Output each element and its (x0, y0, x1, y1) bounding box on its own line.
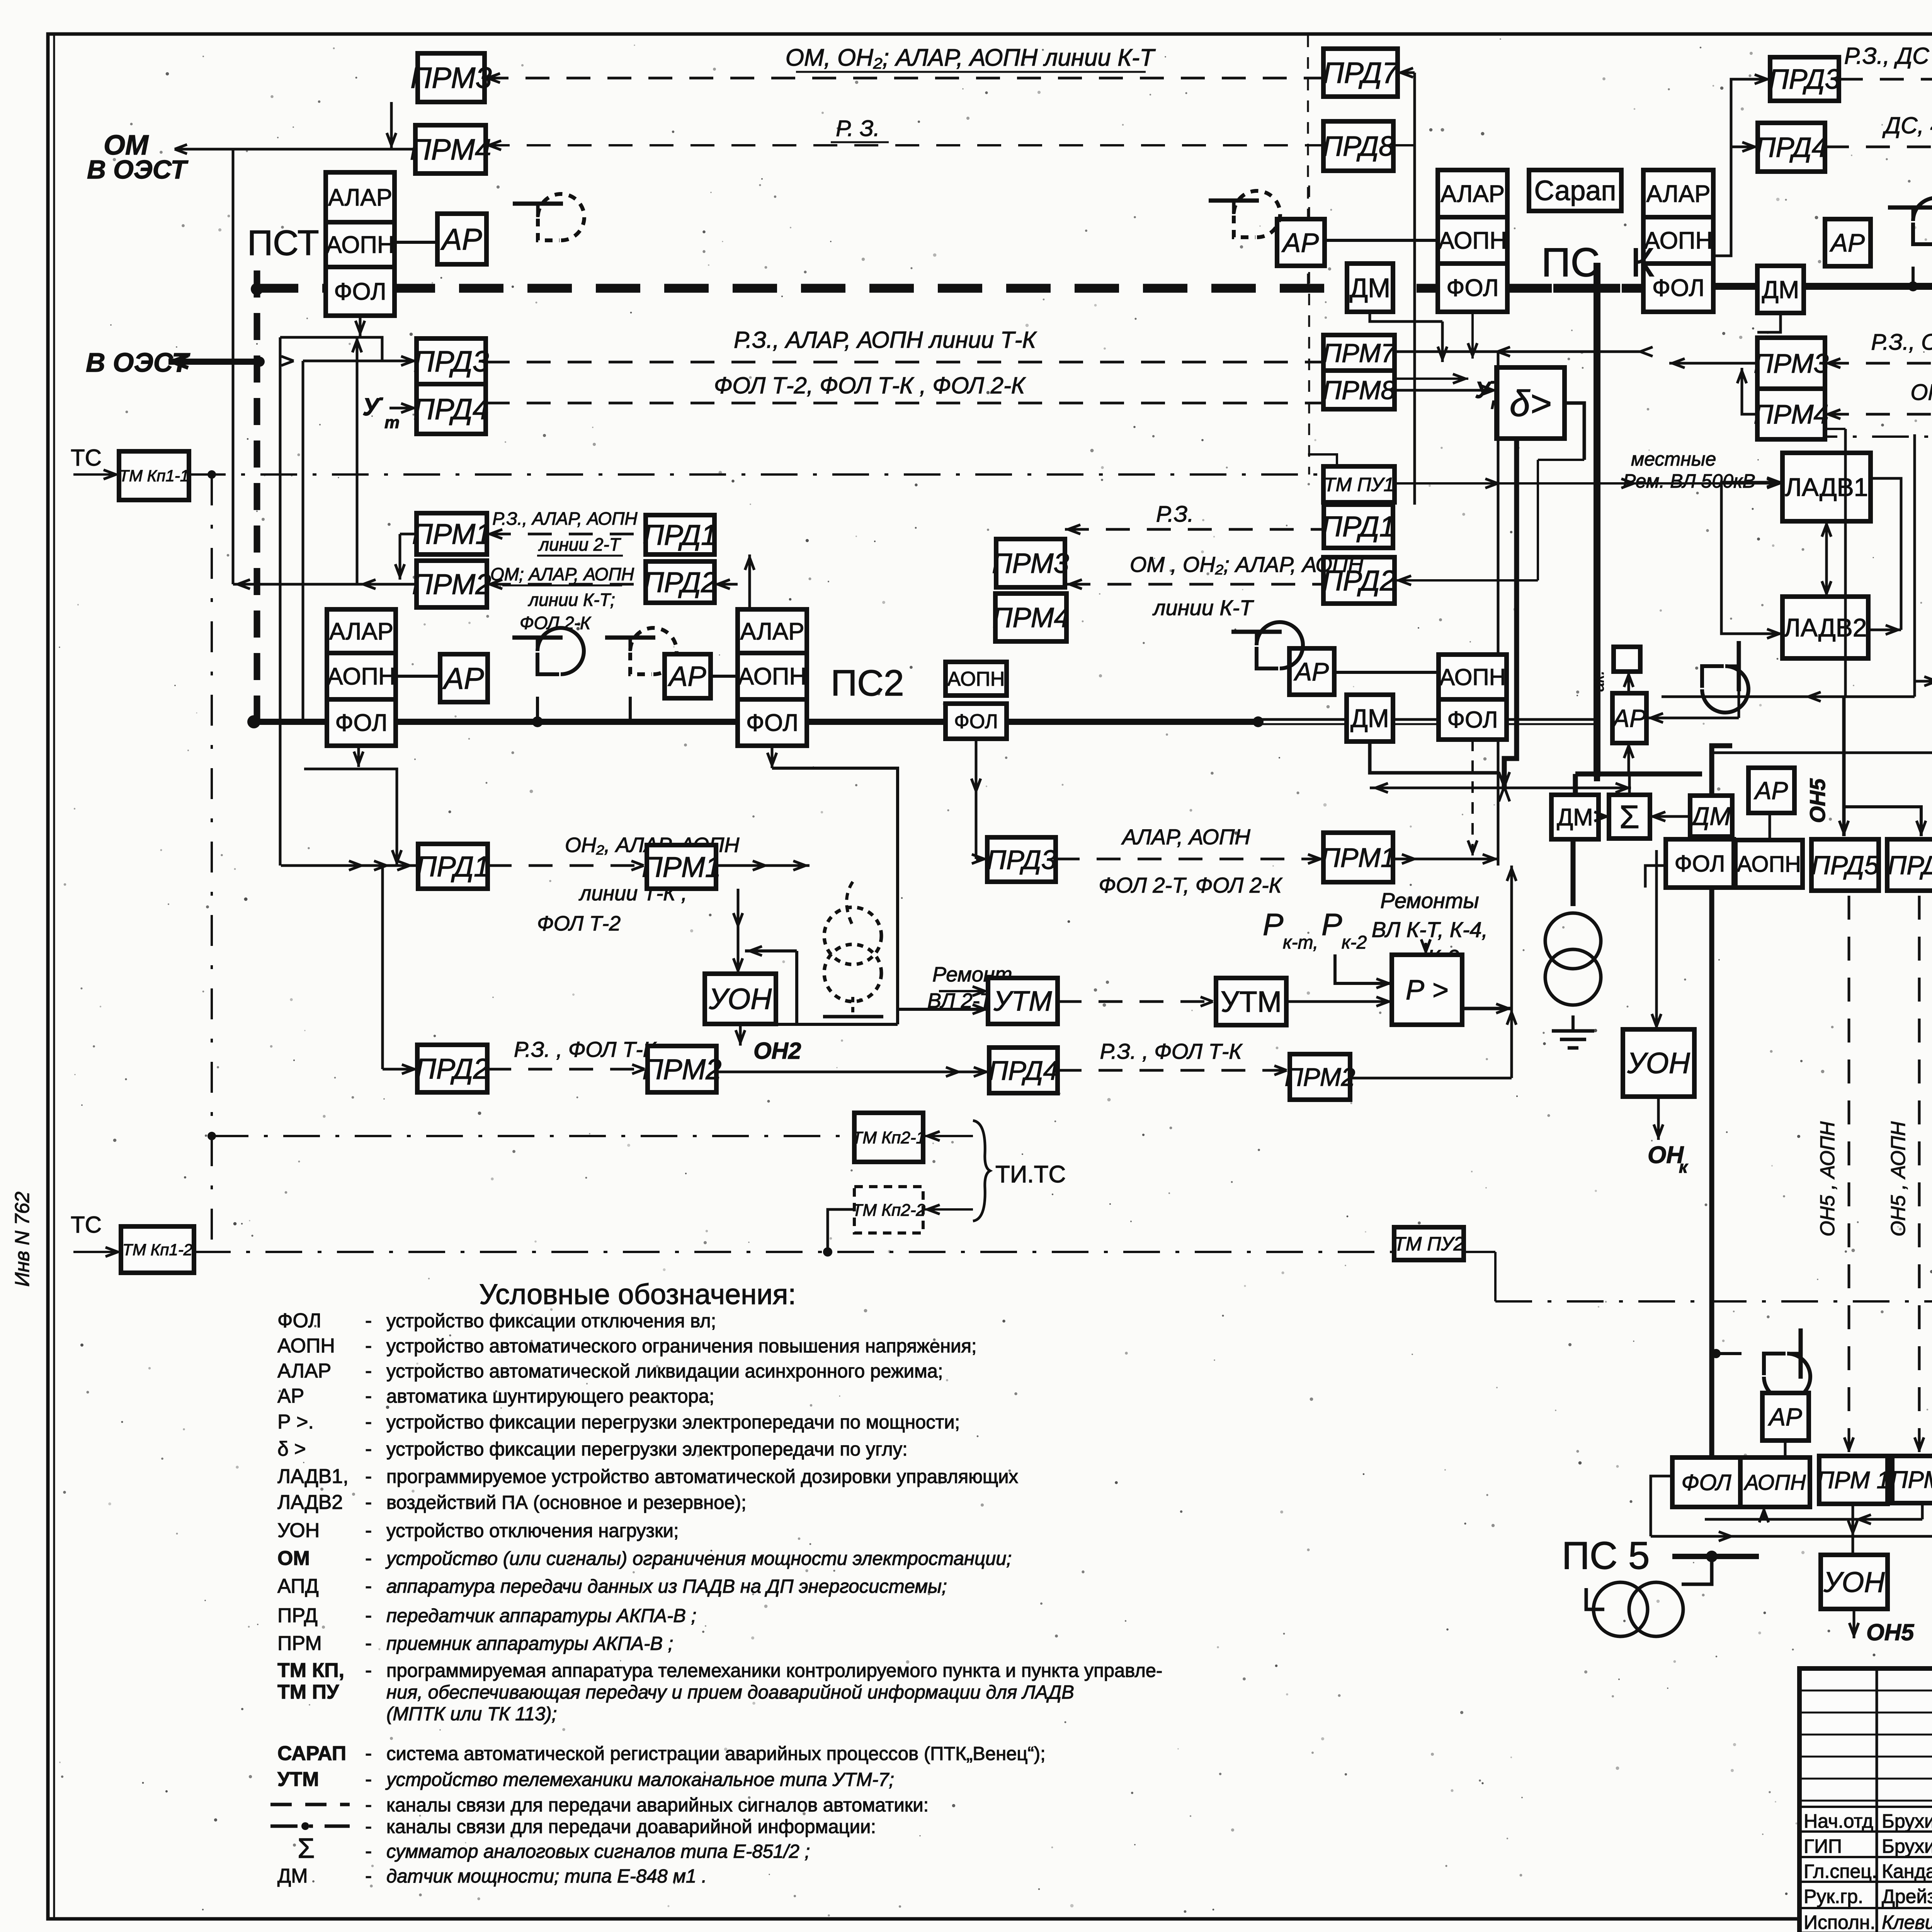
wire: AR bottom arrow up (1629, 746, 1633, 758)
svg-text:-: - (365, 1659, 372, 1682)
svg-text:ОН5: ОН5 (1805, 778, 1830, 823)
receiver PRM1 (PS5) (1819, 1456, 1888, 1504)
svg-text:ТМ КП,: ТМ КП, (277, 1659, 344, 1682)
wire: AR mid to AOPN (1334, 671, 1439, 674)
device FOL (PS5) (1672, 1458, 1740, 1507)
wire: PRM4r hook to PRM3 line (1742, 368, 1757, 414)
svg-text:Рук.гр.: Рук.гр. (1804, 1886, 1863, 1907)
svg-text:устройство автоматической ли: устройство автоматической ликвидации аси… (386, 1361, 943, 1382)
svg-text:-: - (365, 1360, 372, 1382)
wire: collector into PRD3/PRD4 (280, 337, 382, 361)
svg-text:линии К-Т: линии К-Т (1152, 595, 1254, 620)
svg-text:Σ: Σ (1619, 799, 1639, 835)
dosing device LADV2 (1782, 597, 1868, 658)
svg-text:АОПН: АОПН (1439, 664, 1506, 690)
svg-text:ТМ Кп1-1: ТМ Кп1-1 (119, 467, 189, 485)
svg-text:устройство автоматического о: устройство автоматического ограничения п… (386, 1336, 977, 1357)
svg-text:ПРД: ПРД (277, 1604, 318, 1627)
svg-text:устройство (или сигналы) ог: устройство (или сигналы) ограничения мощ… (385, 1548, 1012, 1569)
wire: transformer hook (1682, 1556, 1712, 1584)
svg-text:Кандауров: Кандауров (1882, 1861, 1932, 1882)
transmitter PRD5 (1811, 839, 1879, 891)
svg-text:Гл.спец.: Гл.спец. (1804, 1861, 1877, 1882)
wire: dashed PRD4mid to PRM2mid R.Z. FOL T-K (1058, 1069, 1290, 1072)
svg-text:ОМ , АЛАР, АОПН , ФЛ 4-к: ОМ , АЛАР, АОПН , ФЛ 4-к (1910, 380, 1932, 405)
wire: DM to Sigma arrows (1599, 815, 1609, 818)
wire: AOPN to AR (395, 241, 437, 244)
svg-text:Р.З., АЛАР, АОПН: Р.З., АЛАР, АОПН (492, 509, 638, 529)
svg-text:каналы связи для передачи: каналы связи для передачи доаварийной ин… (386, 1816, 876, 1837)
svg-text:ПРД2: ПРД2 (643, 566, 717, 598)
wire: PRM7 output right (1395, 350, 1643, 353)
svg-text:каналы связи для передачи: каналы связи для передачи аварийных сигн… (386, 1795, 929, 1816)
wire: vertical from PRD7 right down (1413, 73, 1416, 505)
svg-text:Р.З., ОМ, АЛАР, АОПН , фол: Р.З., ОМ, АЛАР, АОПН , фол 4-к (1871, 330, 1932, 355)
receiver PRM8 (1323, 371, 1395, 409)
svg-text:ПС 5: ПС 5 (1562, 1534, 1650, 1577)
shunt reactor 1 (PST bus) (512, 628, 584, 674)
svg-text:УОН: УОН (1823, 1566, 1885, 1598)
svg-text:ПРД4: ПРД4 (988, 1056, 1058, 1086)
power overload relay P> (1392, 955, 1462, 1025)
reactor automation AR (right mid) (1825, 219, 1871, 266)
wire: FOL PS2-right down to PRD3 mid (975, 739, 978, 859)
svg-text:ПРМ 2: ПРМ 2 (1891, 1467, 1932, 1493)
transmitter PRD2 (line K-T) (646, 561, 714, 603)
svg-text:-: - (365, 1794, 372, 1816)
svg-text:ФОЛ: ФОЛ (1447, 707, 1498, 733)
receiver PRM4 (right) (1757, 389, 1825, 439)
wire: v OEST thick arrow (168, 359, 260, 365)
svg-text:АОПН: АОПН (1737, 852, 1801, 877)
wire: LADV1 right out (1871, 478, 1901, 572)
wire: big rect around LADV outputs (1844, 429, 1847, 696)
svg-text:датчик мощности; типа Е-848: датчик мощности; типа Е-848 м1 . (386, 1866, 707, 1887)
wire: FOL stack down arrow (359, 316, 362, 336)
wire: PRM8 output to delta box (1395, 389, 1497, 392)
device AOPN (PS2 right) (946, 662, 1007, 696)
svg-text:Сарап: Сарап (1534, 175, 1616, 206)
shunt reactor (mid) (1231, 622, 1303, 668)
svg-text:ОН5: ОН5 (1866, 1619, 1915, 1645)
transmitter PRD2 (row3) (417, 1045, 487, 1092)
svg-text:ПС2: ПС2 (831, 663, 904, 704)
wire: dash-dot vertical x548 (211, 474, 213, 1252)
svg-text:АОПН: АОПН (1644, 228, 1713, 254)
wire: PS5 bus stub (1672, 1554, 1759, 1559)
svg-text:автоматика шунтирующего реак: автоматика шунтирующего реактора; (386, 1386, 714, 1407)
svg-text:-: - (365, 1575, 372, 1597)
wire: AOPN-AR link (396, 675, 440, 678)
wire: P> output right (1462, 1007, 1512, 1010)
ground (2-T) (851, 997, 854, 1015)
svg-text:ПРД3: ПРД3 (413, 345, 489, 378)
svg-text:Р. З.: Р. З. (836, 116, 880, 141)
wire: dashed OM ALAR AOPN fil4-k (1825, 413, 1932, 416)
svg-text:ПРМ1: ПРМ1 (642, 851, 721, 883)
svg-text:-: - (365, 1768, 372, 1791)
receiver PRM2 (row3) (648, 1046, 716, 1092)
svg-text:-: - (365, 1385, 372, 1407)
receiver PRM3 (PST) (418, 53, 485, 102)
svg-text:приемник аппаратуры АКПА-В: приемник аппаратуры АКПА-В ; (386, 1633, 673, 1654)
svg-text:УТМ: УТМ (1221, 986, 1282, 1019)
svg-text:т: т (384, 413, 400, 432)
wire: dashed PRD1-PRM1 row2 (488, 864, 647, 867)
bus: PS K thick vertical (1594, 263, 1600, 777)
svg-text:-: - (365, 1604, 372, 1627)
load shedding UON (PST) (705, 974, 776, 1024)
svg-text:ФОЛ: ФОЛ (1446, 275, 1498, 301)
svg-text:(МПТК или ТК 113);: (МПТК или ТК 113); (386, 1704, 557, 1725)
svg-text:САРАП: САРАП (277, 1742, 346, 1765)
svg-text:ФОЛ 2-Т, ФОЛ 2-К: ФОЛ 2-Т, ФОЛ 2-К (1099, 873, 1282, 897)
transformer (2-T) (824, 907, 881, 964)
wire: TM Kp2-2 right (923, 1208, 973, 1211)
wire: UON K input (1655, 947, 1658, 1029)
device AOPN (collector row) (1735, 840, 1803, 888)
svg-text:ПС: ПС (1541, 240, 1600, 285)
wire: arrows into UTM1 (939, 990, 988, 992)
wire: AR up arrow to ak box (1628, 672, 1630, 693)
wire: arrow into AR right side (1646, 717, 1739, 719)
svg-text:ПРМ: ПРМ (277, 1632, 322, 1655)
svg-text:АЛАР, АОПН: АЛАР, АОПН (1121, 825, 1250, 849)
wire: collector line y1948 to APD2 (1712, 752, 1932, 754)
svg-text:ПРД3: ПРД3 (986, 845, 1056, 875)
svg-text:устройство фиксации перегруз: устройство фиксации перегрузки электропе… (386, 1439, 908, 1460)
svg-text:ТС: ТС (71, 445, 102, 471)
reactor automation AR (PS5) (1762, 1393, 1809, 1440)
svg-text:ПРМ1: ПРМ1 (1321, 843, 1396, 873)
wire: vertical from PRM3 to OM line (390, 102, 393, 149)
svg-text:Нач.отд: Нач.отд (1804, 1810, 1873, 1832)
wire: dashed R.Z. to PRM3 midleft (1065, 528, 1324, 531)
svg-text:ТМ Кп2-1: ТМ Кп2-1 (852, 1128, 925, 1147)
wire: TS arrow into TM Kp1-1 (73, 473, 119, 476)
svg-text:ПРД4: ПРД4 (413, 393, 489, 426)
svg-text:ПРМ 1: ПРМ 1 (1817, 1467, 1890, 1494)
wire: TS dash-dot line y1228 (189, 473, 1323, 476)
wire: FOL PS2 down arrow (771, 746, 774, 768)
svg-text:-: - (365, 1465, 372, 1488)
wire: ON5 branch to PRD6 (1844, 807, 1921, 836)
wire: dashed OM OH2 ALAR AOPN linii K-T (485, 77, 1323, 80)
svg-text:ПРД2: ПРД2 (415, 1053, 489, 1085)
svg-text:Р: Р (1321, 907, 1342, 942)
svg-text:ДМ: ДМ (1350, 704, 1389, 733)
wire: PS5 collector lines (1705, 1518, 1922, 1521)
wire: PRM1 down to PRM2 line (400, 533, 417, 536)
shunt reactor (K right) (1702, 641, 1748, 713)
svg-text:передатчик аппаратуры АКПА-В: передатчик аппаратуры АКПА-В ; (386, 1605, 696, 1626)
wire: DM bottom hook (1370, 312, 1442, 321)
svg-text:устройство фиксации отключен: устройство фиксации отключения вл; (386, 1311, 716, 1332)
svg-text:к-2: к-2 (1342, 932, 1367, 953)
wire: DM sum-left down to transformer (1571, 839, 1576, 906)
wire: AOPN PSK-left down arrow (1471, 312, 1474, 359)
device stack ALAR/AOPN/FOL (PS K right) (1643, 170, 1713, 312)
svg-text:АР: АР (1611, 704, 1646, 732)
svg-text:ПРМ8: ПРМ8 (1323, 376, 1396, 405)
svg-text:ГИП: ГИП (1804, 1835, 1842, 1857)
svg-text:Клевцова: Клевцова (1882, 1912, 1932, 1932)
wire: remonty arrow down into P> (1425, 943, 1427, 955)
transformer (PS5) (1594, 1582, 1648, 1636)
device stack ALAR/AOPN/FOL (PST lower) (327, 609, 396, 746)
telemetry TM Kp1-2 (121, 1226, 194, 1273)
shunt reactor 2 (PST bus) (605, 628, 677, 674)
svg-text:ПРМ7: ПРМ7 (1323, 338, 1396, 368)
wire: dashed PRD2-PRM2 row3 R.Z. FOL T-K (487, 1068, 648, 1071)
svg-text:АОПН: АОПН (947, 668, 1005, 690)
wire: into PRD4 mid from left (716, 1071, 989, 1073)
wire: PRM1 down to UON (737, 889, 740, 974)
svg-text:Брухис: Брухис (1882, 1810, 1932, 1832)
load shedding UON (K) (1623, 1029, 1694, 1097)
wire: FOL(PST lower) down collector (357, 746, 360, 767)
wire: y1803 collector line from LADV (1662, 696, 1915, 698)
device AOPN (PS5) (1740, 1458, 1810, 1507)
svg-text:Р.З., АЛАР, АОПН линии Т-К: Р.З., АЛАР, АОПН линии Т-К (734, 327, 1037, 353)
telecontrol TM PU2 (1394, 1227, 1464, 1260)
wire: dashed DS 4st line to PRM2 right (1825, 146, 1932, 148)
device FOL (collector row) (1666, 839, 1734, 888)
wire: Ut arrow into PRD4 (389, 407, 417, 410)
wire: vertical into PRD2 row3 (381, 866, 384, 1069)
svg-text:программируемая аппаратура т: программируемая аппаратура телемеханики … (386, 1660, 1162, 1681)
svg-text:ЛАДВ2: ЛАДВ2 (277, 1491, 343, 1514)
bus: thin double line y1862 to PSK (1258, 718, 1599, 721)
svg-text:УОН: УОН (1627, 1047, 1690, 1080)
wire: dashed PRD1 to PRM1 (487, 533, 646, 536)
svg-text:воздействий ПА (основное и: воздействий ПА (основное и резервное); (386, 1492, 747, 1513)
shunt reactor (PST) (513, 194, 584, 240)
svg-text:к: к (1679, 1158, 1689, 1177)
receiver PRM2 (mid) (1290, 1054, 1350, 1100)
svg-text:аппаратура передачи данных: аппаратура передачи данных из ПАДВ на ДП… (386, 1576, 947, 1597)
svg-text:ОМ: ОМ (277, 1547, 310, 1570)
svg-text:ОМ , ОН₂; АЛАР, АОПН: ОМ , ОН₂; АЛАР, АОПН (1130, 552, 1364, 577)
wire: TM Kp2-1 left dash-dot line (212, 1135, 854, 1137)
svg-text:-: - (365, 1491, 372, 1514)
svg-text:-: - (365, 1438, 372, 1460)
wire: ON5 vertical into PRD5 (1842, 697, 1846, 836)
power sensor DM (mid) (1347, 695, 1393, 742)
wire: PRD2 mid right link (1395, 579, 1538, 582)
svg-text:ОМ, ОН₂; АЛАР, АОПН линии К-: ОМ, ОН₂; АЛАР, АОПН линии К-Т (786, 44, 1156, 71)
svg-text:ФОЛ: ФОЛ (1675, 851, 1725, 877)
wire: TM Kp2-1 right (923, 1135, 973, 1137)
wire: UON K out OHk (1657, 1097, 1660, 1140)
svg-text:ПРД3: ПРД3 (1769, 64, 1840, 95)
svg-text:ПРД1: ПРД1 (1321, 510, 1395, 543)
recorder Sarap (1529, 170, 1621, 211)
svg-text:АОПН: АОПН (327, 663, 396, 690)
shunt reactor (PS4 area1) (1888, 198, 1932, 244)
receiver PRM7 (1323, 335, 1395, 371)
reactor automation AR (K right) (1612, 693, 1646, 743)
transmitter PRD8 (1323, 121, 1393, 171)
svg-text:-: - (365, 1632, 372, 1655)
svg-text:устройство фиксации перегруз: устройство фиксации перегрузки электропе… (386, 1412, 960, 1433)
wire: AR to AOPN PS K (1325, 239, 1438, 242)
transmitter PRD3 (right) (1770, 57, 1839, 101)
brace TI.TS (973, 1121, 990, 1221)
wire: PRD8 right line (1393, 144, 1415, 146)
wire: UON PS5 out ON5 (1853, 1609, 1855, 1638)
wire: collector arrows into PRD1 row2 (281, 864, 418, 867)
wire: reactor to bus (1912, 267, 1915, 286)
svg-text:В ОЭСТ: В ОЭСТ (86, 347, 190, 378)
svg-text:ОН5 , АОПН: ОН5 , АОПН (1887, 1121, 1910, 1236)
wire: UON down ON2 (739, 1024, 742, 1046)
svg-text:Σ: Σ (298, 1833, 315, 1864)
reactor automation AR (PS2) (665, 654, 711, 698)
wire: PRM1 row2 output right (716, 864, 810, 867)
svg-text:ОН2: ОН2 (753, 1038, 801, 1064)
power sensor DM (sum left) (1551, 795, 1599, 839)
load shedding UON (PS5) (1821, 1555, 1888, 1609)
wire: dashed OM ON2 to PRM4 midleft (1066, 583, 1323, 586)
svg-text:ПРМ2: ПРМ2 (412, 568, 492, 600)
svg-text:ТС: ТС (71, 1212, 102, 1238)
svg-text:ФОЛ: ФОЛ (335, 710, 387, 736)
wire: ALAR arrows up into PRD1 (748, 554, 751, 609)
svg-text:АР: АР (1767, 1403, 1802, 1431)
telemetry TM Kp2-1 (854, 1113, 923, 1162)
svg-text:ФОЛ Т-2: ФОЛ Т-2 (537, 912, 621, 935)
wire: TM Kp2-2 to TS dashdot junction (828, 1209, 854, 1252)
svg-text:ЛАДВ2: ЛАДВ2 (1784, 613, 1867, 642)
wire: PRM2mid output right (1350, 1077, 1512, 1080)
transmitter PRD4 (PST) (417, 384, 486, 434)
svg-text:ПРД8: ПРД8 (1323, 131, 1394, 162)
ground (K mid) (1571, 1015, 1575, 1031)
wire: thick path PSK to sum (1594, 777, 1600, 781)
wire: x3877 vertical (1497, 352, 1500, 866)
svg-text:ТМ ПУ1: ТМ ПУ1 (1324, 474, 1395, 495)
reactor automation AR (PS K) (1277, 219, 1325, 266)
wire: vertical dashed from top x3385 (1307, 36, 1309, 288)
wire: dashed R.Z. OM ALAR AOPN fol4-k (1825, 362, 1932, 365)
svg-text:ПРМ4: ПРМ4 (992, 602, 1069, 633)
receiver PRM1 (mid) (1323, 833, 1393, 882)
svg-text:ПРД1: ПРД1 (643, 519, 717, 551)
svg-text:Р.З., ДС , 4ст.ОН , АЛАР, АОП: Р.З., ДС , 4ст.ОН , АЛАР, АОПН, ОР (1844, 43, 1932, 69)
svg-text:ПРМ3: ПРМ3 (1754, 349, 1829, 379)
receiver PRM4 (PST) (415, 125, 486, 173)
svg-text:ПРМ2: ПРМ2 (643, 1053, 722, 1085)
dosing device LADV1 (1782, 453, 1871, 521)
svg-text:-: - (365, 1840, 372, 1862)
svg-text:АР: АР (1753, 777, 1788, 804)
svg-text:УОН: УОН (277, 1519, 320, 1542)
svg-text:ТМ ПУ2: ТМ ПУ2 (1394, 1233, 1464, 1255)
bus: PS4 thick solid y741 (1713, 283, 1932, 290)
wire: Pk input corner to P> (1335, 954, 1379, 983)
transmitter PRD6 (1887, 839, 1932, 891)
wire: DM PS4 bottom hook (1757, 313, 1781, 332)
wire: left links of PRD3/PRD4 right (1713, 79, 1770, 256)
svg-text:АР: АР (277, 1385, 304, 1407)
svg-text:к-т,: к-т, (1283, 932, 1318, 953)
shunt reactor (PS K) (1209, 191, 1280, 237)
svg-text:ПРД6: ПРД6 (1888, 850, 1932, 880)
svg-text:Р.З. , ФОЛ Т-К: Р.З. , ФОЛ Т-К (1100, 1039, 1243, 1063)
wire: junction X explosion (1504, 787, 1510, 801)
svg-text:ПСТ: ПСТ (247, 223, 319, 263)
svg-text:сумматор аналоговых сигналов: сумматор аналоговых сигналов типа Е-851/… (386, 1841, 810, 1862)
svg-text:УТМ: УТМ (993, 986, 1052, 1017)
svg-text:ния, обеспечивающая передачу: ния, обеспечивающая передачу и прием доа… (386, 1682, 1074, 1703)
svg-text:АОПН: АОПН (1438, 228, 1507, 254)
wire: PRM1mid output right (1393, 858, 1498, 861)
wire: TS dash-dot bottom y3240 (194, 1251, 1394, 1253)
wire: PRM2 output to left verticals (233, 583, 417, 586)
svg-text:ДС, 4ст. ОН , АЛАР , АОПН, О: ДС, 4ст. ОН , АЛАР , АОПН, ОР (1882, 112, 1932, 138)
svg-text:ФОЛ: ФОЛ (1681, 1470, 1731, 1495)
svg-text:В ОЭСТ: В ОЭСТ (87, 155, 189, 184)
bus: PST thick dashed vertical (254, 270, 260, 722)
wire: LADV left loop (1721, 482, 1782, 634)
power sensor DM (PS4 bus) (1757, 266, 1804, 313)
svg-text:ФОЛ: ФОЛ (1652, 275, 1704, 301)
svg-text:ак.: ак. (1589, 670, 1607, 692)
svg-text:Ремонты: Ремонты (1380, 888, 1479, 913)
wire: AR PS5 to AOPN (1769, 813, 1771, 839)
telemetry TM Kp2-2 (854, 1187, 923, 1233)
telecontrol TM PU1 (1323, 466, 1395, 502)
reactor automation AR (PST) (437, 214, 486, 264)
svg-text:-: - (365, 1742, 372, 1765)
svg-text:устройство отключения нагрузк: устройство отключения нагрузки; (386, 1520, 679, 1541)
receiver PRM1 (PST) (417, 513, 487, 554)
svg-text:ФОЛ: ФОЛ (334, 279, 386, 305)
device stack ALAR/AOPN/FOL (PS2) (738, 609, 807, 746)
transmitter PRD3 (mid) (987, 837, 1056, 882)
wire: PRM3r out left arrow (1669, 362, 1757, 365)
svg-text:ПРМ2: ПРМ2 (1285, 1063, 1355, 1091)
device stack ALAR/AOPN/FOL (PS K left) (1438, 170, 1507, 312)
svg-text:УОН: УОН (709, 983, 772, 1016)
svg-text:Р >: Р > (1406, 975, 1448, 1006)
transmitter PRD7 (1323, 49, 1398, 97)
svg-text:ПРМ1: ПРМ1 (412, 518, 492, 550)
svg-text:Р.З.: Р.З. (1156, 502, 1194, 527)
wire: dashed UTM-UTM (1058, 1000, 1216, 1003)
svg-text:δ >: δ > (277, 1438, 306, 1460)
receiver PRM2 (PS5) (1892, 1456, 1932, 1503)
device stack AOPN/FOL (mid) (1439, 655, 1507, 740)
svg-text:Исполн.: Исполн. (1804, 1912, 1875, 1932)
svg-text:система автоматической реги: система автоматической регистрации авари… (386, 1743, 1046, 1764)
svg-text:АЛАР: АЛАР (328, 184, 392, 211)
svg-text:линии К-Т;: линии К-Т; (527, 590, 615, 610)
svg-text:ЛАДВ1,: ЛАДВ1, (277, 1465, 349, 1488)
svg-text:ДМ: ДМ (277, 1865, 308, 1887)
wire: collector line y1763 to APD1 (1915, 680, 1932, 683)
svg-text:линии 2-Т: линии 2-Т (538, 534, 621, 554)
wire: LADV2 right arrow (1868, 629, 1901, 631)
svg-text:Дрейзина: Дрейзина (1882, 1886, 1932, 1907)
transmitter PRD1 (mid) (1324, 505, 1393, 548)
wire: dashed R.Z. line to PRD8 (486, 144, 1323, 146)
svg-text:Р: Р (1263, 907, 1283, 942)
receiver PRM2 (PST) (417, 561, 487, 607)
wire: DM right up thick (1712, 746, 1732, 796)
svg-text:ДМ: ДМ (1350, 273, 1391, 303)
